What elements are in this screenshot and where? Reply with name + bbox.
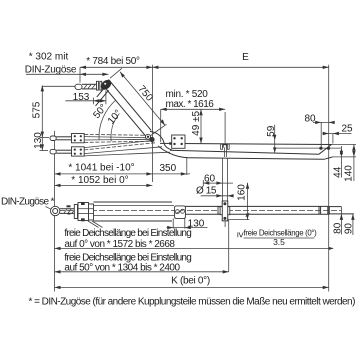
svg-text:160: 160 [237,184,248,201]
svg-text:350: 350 [159,163,176,174]
svg-text:3.5: 3.5 [273,237,285,247]
svg-text:49 ±5: 49 ±5 [191,110,202,135]
svg-text:* 1052 bei 0°: * 1052 bei 0° [71,175,128,186]
svg-text:* 784 bei 50°: * 784 bei 50° [86,56,140,67]
svg-text:153: 153 [73,92,90,103]
svg-text:E: E [242,52,249,63]
svg-text:* = DIN-Zugöse (für andere Kup: * = DIN-Zugöse (für andere Kupplungsteil… [29,296,356,307]
svg-text:DIN-Zugöse: DIN-Zugöse [25,64,77,75]
svg-text:140: 140 [344,165,355,182]
svg-text:DIN-Zugöse *: DIN-Zugöse * [1,197,55,208]
svg-text:575: 575 [32,101,43,118]
svg-text:Ø 15: Ø 15 [196,186,217,197]
svg-text:25: 25 [341,124,353,135]
svg-text:freie Deichsellänge (0°): freie Deichsellänge (0°) [244,228,317,237]
svg-text:max. * 1616: max. * 1616 [166,99,215,110]
svg-text:* 1041 bei -10°: * 1041 bei -10° [68,163,134,174]
svg-text:59: 59 [266,125,277,137]
svg-text:44: 44 [333,166,344,178]
svg-text:130: 130 [33,132,44,149]
svg-text:freie Deichsellänge bei Einste: freie Deichsellänge bei Einstellung [64,228,191,239]
svg-text:90: 90 [344,223,355,235]
svg-text:* 302 mit: * 302 mit [29,51,69,62]
svg-text:K (bei 0°): K (bei 0°) [171,275,210,286]
svg-text:80: 80 [332,222,343,234]
